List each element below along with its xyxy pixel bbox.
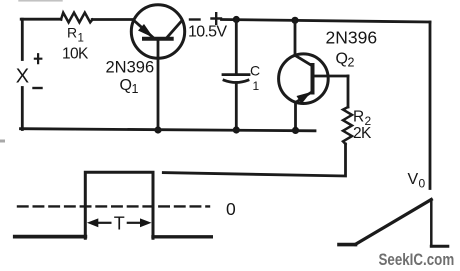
Q2 base lead to the right xyxy=(313,75,349,78)
resistor R2 xyxy=(343,107,352,144)
wire: right vertical drop to V0 xyxy=(429,22,432,189)
wire: Q2 emitter lead down to rail xyxy=(294,103,297,131)
svg-text:1: 1 xyxy=(132,82,139,96)
svg-text:X: X xyxy=(16,65,29,87)
Q1 base bar xyxy=(144,37,172,41)
Q1 emitter line with arrow xyxy=(134,21,153,38)
dimension arrow left (T) xyxy=(97,222,110,224)
waveform: sawtooth right baseline xyxy=(431,245,448,248)
waveform: input square wave left baseline xyxy=(15,235,86,239)
label R1 xyxy=(67,25,84,45)
junction dot Q2 emitter on bottom rail xyxy=(292,127,299,134)
svg-text:Q: Q xyxy=(120,77,132,94)
X polarity plus xyxy=(35,54,41,63)
svg-text:10.5V: 10.5V xyxy=(188,24,227,41)
label V0 xyxy=(408,171,426,191)
Q1 base lead down to rail xyxy=(157,40,160,130)
waveform: square wave right baseline xyxy=(153,235,211,238)
svg-text:R: R xyxy=(67,25,77,41)
svg-text:V: V xyxy=(408,171,419,188)
waveform: sawtooth drop edge xyxy=(430,200,433,247)
dimension arrow right (T) xyxy=(128,222,141,224)
junction dot C1 bottom xyxy=(233,126,240,133)
wire: left vertical, upper segment above X xyxy=(21,19,24,59)
capacitor C1 bottom lead xyxy=(235,83,238,131)
Q2 emitter line with arrow xyxy=(296,92,313,103)
label R2 xyxy=(353,108,372,128)
svg-text:2K: 2K xyxy=(353,125,372,142)
waveform: output sawtooth left baseline xyxy=(339,243,356,247)
junction dot Q2 collector on top rail xyxy=(291,17,298,24)
wire: top rail from left corner to R1 xyxy=(21,18,61,21)
junction dot C1 top xyxy=(233,16,240,23)
wire: R2 bottom lead down and left (open end) xyxy=(163,144,345,176)
svg-text:R: R xyxy=(353,108,364,125)
svg-text:T: T xyxy=(114,214,125,234)
waveform: zero dashed line xyxy=(18,205,209,207)
resistor R1 xyxy=(61,13,93,23)
svg-text:0: 0 xyxy=(419,177,426,191)
transistor Q2 (PNP 2N396) circle xyxy=(279,54,329,104)
svg-text:2N396: 2N396 xyxy=(106,59,155,77)
capacitor C1 bottom plate (curved) xyxy=(224,80,248,82)
wire: R1 to Q1 emitter xyxy=(92,18,132,21)
wire: bottom common rail xyxy=(21,129,316,131)
svg-text:10K: 10K xyxy=(62,46,89,63)
wire: Q2 collector lead from top rail xyxy=(294,20,297,55)
svg-text:SeekIC.com: SeekIC.com xyxy=(379,251,455,270)
waveform: square wave pulse xyxy=(85,172,153,238)
junction dot Q1 base on bottom rail xyxy=(154,126,161,133)
capacitor C1 top plate xyxy=(223,73,249,76)
wire: left vertical, lower segment below X xyxy=(21,88,24,130)
svg-text:2: 2 xyxy=(348,56,355,70)
svg-text:1: 1 xyxy=(253,79,260,93)
svg-text:C: C xyxy=(250,63,260,79)
wire: top rail from battery to right corner xyxy=(222,20,431,23)
svg-text:Q: Q xyxy=(336,51,348,68)
svg-text:0: 0 xyxy=(226,199,236,219)
capacitor C1 top lead xyxy=(235,20,238,73)
svg-text:2N396: 2N396 xyxy=(326,28,378,48)
scan artifact left edge xyxy=(0,140,4,143)
transistor Q1 (PNP 2N396) circle xyxy=(131,5,184,58)
label Q1 xyxy=(120,77,139,96)
battery plus mark xyxy=(212,13,222,24)
waveform: sawtooth ramp xyxy=(356,200,432,245)
scan artifact top-left xyxy=(19,0,62,2)
Q2 collector line xyxy=(295,56,312,67)
label Q2 xyxy=(336,51,355,70)
wire: base node down to R2 xyxy=(347,76,350,107)
X polarity minus xyxy=(34,87,42,89)
Q2 base bar (vertical) xyxy=(311,65,315,93)
Q1 collector line xyxy=(167,21,183,39)
svg-text:1: 1 xyxy=(78,33,84,45)
battery minus mark xyxy=(190,18,200,20)
